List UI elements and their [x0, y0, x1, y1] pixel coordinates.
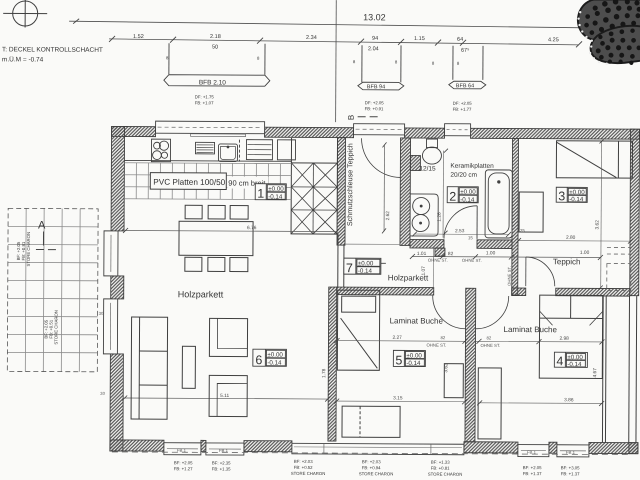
svg-text:82: 82 — [448, 251, 454, 257]
svg-text:4.25: 4.25 — [548, 37, 559, 43]
svg-text:OHNE ST.: OHNE ST. — [507, 266, 512, 286]
svg-text:6: 6 — [255, 353, 262, 367]
svg-text:94: 94 — [372, 36, 378, 42]
svg-text:OHNE ST.: OHNE ST. — [462, 258, 482, 263]
svg-text:30: 30 — [99, 311, 104, 316]
svg-text:OHNE ST.: OHNE ST. — [428, 258, 448, 263]
svg-text:3.15: 3.15 — [393, 395, 403, 401]
svg-text:2.80: 2.80 — [566, 235, 576, 241]
svg-text:Keramikplatten: Keramikplatten — [450, 163, 494, 170]
svg-text:2.34: 2.34 — [306, 35, 317, 41]
svg-text:STORE CHARON: STORE CHARON — [359, 471, 394, 476]
svg-text:1.00: 1.00 — [486, 250, 496, 256]
svg-text:Teppich: Teppich — [553, 257, 581, 266]
svg-text:±0.00: ±0.00 — [406, 352, 422, 359]
svg-text:6.76: 6.76 — [247, 225, 257, 231]
svg-text:64: 64 — [457, 37, 463, 43]
svg-text:BF: +3.05: BF: +3.05 — [561, 465, 580, 470]
svg-text:13.02: 13.02 — [363, 12, 386, 22]
svg-text:1.52: 1.52 — [133, 34, 144, 40]
svg-text:1: 1 — [257, 187, 264, 201]
svg-text:3.62: 3.62 — [595, 220, 601, 230]
svg-text:25: 25 — [520, 228, 525, 233]
svg-text:-0.14: -0.14 — [569, 196, 584, 203]
svg-text:7: 7 — [346, 261, 353, 275]
svg-text:30: 30 — [100, 391, 105, 396]
svg-text:20/20 cm: 20/20 cm — [450, 172, 477, 179]
svg-text:FB: +1.77: FB: +1.77 — [453, 107, 472, 112]
svg-text:1.15: 1.15 — [414, 36, 425, 42]
svg-text:5: 5 — [395, 353, 402, 367]
svg-text:OHNE ST.: OHNE ST. — [480, 343, 500, 348]
svg-text:Laminat Buche: Laminat Buche — [390, 316, 444, 325]
svg-text:3.86: 3.86 — [564, 397, 574, 403]
svg-text:2: 2 — [449, 190, 456, 204]
svg-text:-0.14: -0.14 — [267, 360, 282, 367]
svg-text:4: 4 — [556, 354, 563, 368]
svg-text:BFB 2.10: BFB 2.10 — [199, 79, 227, 86]
svg-text:BFB 94: BFB 94 — [367, 84, 385, 90]
svg-text:A: A — [38, 220, 46, 232]
svg-text:2.18: 2.18 — [210, 34, 221, 40]
svg-text:FB: +1.37: FB: +1.37 — [561, 471, 580, 476]
svg-text:±0.00: ±0.00 — [267, 352, 283, 359]
svg-text:±0.00: ±0.00 — [268, 186, 284, 193]
svg-text:BF: +2.35: BF: +2.35 — [212, 460, 231, 465]
svg-text:-0.14: -0.14 — [406, 360, 421, 367]
svg-text:1.07: 1.07 — [421, 266, 427, 276]
svg-text:2.27: 2.27 — [392, 335, 402, 341]
svg-text:2.62: 2.62 — [385, 211, 391, 221]
svg-text:DF: +1.75: DF: +1.75 — [195, 94, 215, 99]
svg-text:-0.14: -0.14 — [460, 197, 475, 204]
svg-text:2.98: 2.98 — [559, 336, 569, 342]
svg-text:OHNE ST.: OHNE ST. — [426, 343, 446, 348]
svg-text:FB: +0.52: FB: +0.52 — [294, 465, 313, 470]
svg-text:Schmutzschleuse Teppich: Schmutzschleuse Teppich — [345, 143, 354, 226]
svg-text:FB: +1.27: FB: +1.27 — [174, 466, 193, 471]
svg-text:-0.14: -0.14 — [268, 194, 283, 201]
svg-text:DF: +2.05: DF: +2.05 — [453, 101, 473, 106]
svg-text:FB: +0.81: FB: +0.81 — [431, 466, 450, 471]
svg-text:B: B — [347, 115, 356, 120]
svg-text:BF: +2.05: BF: +2.05 — [174, 460, 193, 465]
svg-text:±0.00: ±0.00 — [358, 260, 374, 267]
svg-text:T: DECKEL KONTROLLSCHACHT: T: DECKEL KONTROLLSCHACHT — [2, 46, 103, 54]
svg-text:15: 15 — [468, 235, 473, 240]
svg-text:Laminat Buche: Laminat Buche — [504, 325, 558, 334]
svg-text:50: 50 — [212, 44, 218, 50]
svg-text:BF: +2.05: BF: +2.05 — [523, 465, 542, 470]
svg-text:BF: +1.33: BF: +1.33 — [431, 460, 450, 465]
svg-text:STORE CHARON: STORE CHARON — [291, 471, 326, 476]
svg-text:Holzparkett: Holzparkett — [178, 289, 224, 299]
svg-text:82: 82 — [440, 335, 445, 340]
svg-text:-0.14: -0.14 — [358, 268, 373, 275]
svg-text:3: 3 — [558, 189, 565, 203]
svg-text:±0.00: ±0.00 — [567, 354, 583, 361]
svg-text:m.Ü.M = -0.74: m.Ü.M = -0.74 — [2, 55, 44, 63]
svg-text:1.01: 1.01 — [417, 251, 427, 257]
svg-text:FB: +0.91: FB: +0.91 — [365, 106, 384, 111]
svg-text:3.62: 3.62 — [443, 363, 449, 373]
svg-text:STORE CHARON: STORE CHARON — [428, 472, 463, 477]
svg-text:2.53: 2.53 — [455, 228, 465, 234]
svg-text:1.78: 1.78 — [321, 368, 327, 378]
svg-text:BFB 64: BFB 64 — [456, 83, 474, 89]
svg-text:FB: +1.07: FB: +1.07 — [195, 100, 214, 105]
svg-text:STORE CHARON: STORE CHARON — [53, 310, 58, 345]
svg-text:5.11: 5.11 — [220, 393, 229, 399]
svg-text:-0.14: -0.14 — [567, 361, 582, 368]
svg-text:BF: +2.03: BF: +2.03 — [362, 459, 381, 464]
svg-text:4.67: 4.67 — [592, 368, 598, 378]
svg-text:FB: +1.35: FB: +1.35 — [212, 466, 231, 471]
svg-text:BF: +2.03: BF: +2.03 — [294, 459, 313, 464]
svg-text:67⁵: 67⁵ — [461, 47, 469, 54]
svg-text:1.26: 1.26 — [437, 212, 443, 222]
svg-text:82: 82 — [486, 335, 491, 340]
svg-text:2.04: 2.04 — [368, 46, 379, 52]
svg-text:PVC Platten 100/50: PVC Platten 100/50 — [153, 178, 225, 187]
svg-text:±0.00: ±0.00 — [569, 189, 585, 196]
svg-text:12/15: 12/15 — [419, 166, 436, 173]
svg-text:STORE CHARON: STORE CHARON — [26, 232, 31, 267]
svg-text:FB: +0.94: FB: +0.94 — [362, 465, 381, 470]
svg-text:1.00: 1.00 — [580, 250, 590, 256]
svg-text:DF: +2.05: DF: +2.05 — [365, 100, 385, 105]
svg-text:FB: +1.37: FB: +1.37 — [523, 471, 542, 476]
svg-text:±0.00: ±0.00 — [460, 189, 476, 196]
